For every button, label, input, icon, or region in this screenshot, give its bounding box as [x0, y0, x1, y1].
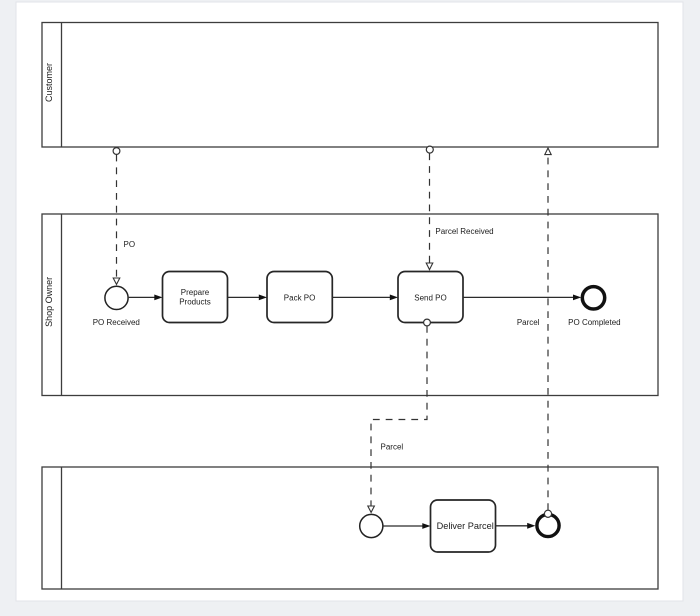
svg-text:Deliver Parcel: Deliver Parcel: [437, 521, 494, 531]
svg-text:Parcel Received: Parcel Received: [435, 227, 493, 236]
svg-text:Pack PO: Pack PO: [284, 293, 316, 302]
sequence flow: Send PO to PO Completed: [463, 295, 581, 301]
svg-text:Prepare: Prepare: [181, 288, 210, 297]
svg-text:PO: PO: [124, 240, 136, 249]
task Pack PO: [267, 272, 332, 323]
task Send PO: [398, 272, 463, 323]
pool Customer: [42, 23, 658, 148]
svg-text:Parcel: Parcel: [381, 443, 404, 452]
message flow Parcel Received: Customer to Send PO: [426, 146, 433, 270]
label PO Received: [93, 318, 140, 327]
task Prepare Products: [163, 272, 228, 323]
label Parcel Received: [435, 227, 493, 236]
start event PO Received: [105, 286, 128, 309]
label PO Completed: [568, 318, 620, 327]
message flow PO: Customer to start event: [113, 148, 120, 285]
end event delivery: [537, 514, 559, 536]
sequence flow: delivery start to Deliver Parcel: [383, 523, 431, 529]
label Parcel (middle): [517, 318, 540, 327]
start event delivery: [360, 514, 383, 537]
svg-text:Shop Owner: Shop Owner: [44, 277, 54, 327]
svg-text:PO Received: PO Received: [93, 318, 140, 327]
sequence flow: start to Prepare Products: [129, 295, 163, 301]
end event PO Completed: [582, 287, 604, 309]
svg-text:Parcel: Parcel: [517, 318, 540, 327]
svg-text:PO Completed: PO Completed: [568, 318, 620, 327]
svg-text:Customer: Customer: [44, 63, 54, 102]
message flow Parcel: delivery end to Customer: [544, 148, 551, 517]
sequence flow: Pack PO to Send PO: [332, 295, 398, 301]
pool unnamed (delivery): [42, 467, 658, 589]
sequence flow: Deliver Parcel to delivery end: [495, 523, 535, 529]
pool Shop Owner: [42, 214, 658, 396]
svg-text:Products: Products: [179, 297, 211, 306]
label PO: [124, 240, 136, 249]
sequence flow: Prepare Products to Pack PO: [228, 295, 268, 301]
svg-text:Send PO: Send PO: [414, 293, 446, 302]
task Deliver Parcel: [431, 500, 496, 552]
message flow Parcel: Send PO to delivery start: [368, 319, 431, 512]
label Parcel (lower): [381, 443, 404, 452]
